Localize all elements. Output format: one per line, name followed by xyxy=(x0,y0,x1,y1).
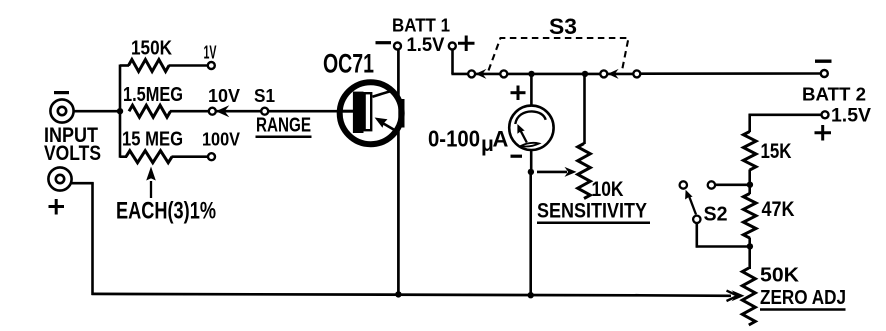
label BATT 1 xyxy=(392,15,450,36)
node bottom rail transistor junction xyxy=(395,291,401,297)
label 1.5MEG value xyxy=(123,84,183,106)
svg-text:OC71: OC71 xyxy=(323,49,374,79)
svg-text:10V: 10V xyxy=(208,85,241,106)
label 50K xyxy=(760,264,799,287)
battery B2 plus sign xyxy=(815,125,832,141)
node bottom rail meter junction xyxy=(528,292,534,298)
label 0-100uA xyxy=(428,126,509,157)
resistor 47K xyxy=(743,194,756,239)
wire junction down to 10K pot xyxy=(583,74,586,144)
meter M1 scale arc xyxy=(515,111,545,124)
wire BATT1- down through transistor to bottom rail xyxy=(397,49,400,296)
label 100V xyxy=(202,129,241,150)
switch S3b wiper arrow xyxy=(607,69,634,79)
switch S1 pole contact xyxy=(261,108,268,115)
wire bus to R 150K xyxy=(120,64,129,67)
node divider input junction xyxy=(117,108,123,114)
wire S2 pole down and to 47K bottom xyxy=(696,223,747,248)
svg-text:ZERO ADJ: ZERO ADJ xyxy=(760,287,846,309)
svg-text:BATT 1: BATT 1 xyxy=(392,15,450,36)
switch S2 pole contact xyxy=(693,216,700,223)
switch S3a wiper arrow xyxy=(475,69,501,79)
transistor Q1 collector lead xyxy=(373,90,394,97)
battery B1 negative terminal xyxy=(394,43,401,50)
resistor 15K xyxy=(743,132,756,171)
svg-text:15K: 15K xyxy=(761,140,792,163)
wire junction down to 50K pot xyxy=(748,246,751,269)
label EACH (3) 1% xyxy=(116,198,216,225)
label 150K value xyxy=(131,37,172,60)
wire meter to wiper junction xyxy=(530,149,533,172)
label minus for input top terminal xyxy=(54,91,69,94)
switch S3b output contact xyxy=(633,70,640,77)
switch S2 lever xyxy=(685,190,696,215)
svg-text:1V: 1V xyxy=(204,42,217,63)
svg-text:1.5V: 1.5V xyxy=(407,34,445,56)
wire 47K to junction xyxy=(748,238,751,248)
meter M1 pivot base xyxy=(521,143,539,147)
label ZERO ADJ underlined xyxy=(760,287,846,310)
svg-text:VOLTS: VOLTS xyxy=(44,142,101,165)
node meter bottom junction xyxy=(528,169,534,175)
label meter minus sign xyxy=(511,155,523,158)
label 15K xyxy=(761,140,792,163)
label 10V xyxy=(208,85,241,106)
label S1 xyxy=(254,85,275,106)
label 15 MEG value xyxy=(122,129,183,151)
switch S1 wiper arrow xyxy=(216,105,230,117)
switch S2 open contact xyxy=(680,181,687,188)
svg-text:50K: 50K xyxy=(760,264,799,287)
label SENSITIVITY underlined xyxy=(537,200,650,223)
battery B1 plus sign xyxy=(458,36,475,52)
wire input- to divider bus xyxy=(74,110,122,113)
svg-text:150K: 150K xyxy=(131,37,172,60)
battery B1 minus sign xyxy=(376,41,392,44)
node sensitivity pot junction xyxy=(582,71,588,77)
label plus for input bottom terminal xyxy=(49,199,65,215)
wire S3a to S3b along top rail xyxy=(507,73,601,76)
svg-text:RANGE: RANGE xyxy=(256,114,311,136)
wire junction down to meter xyxy=(530,74,533,106)
meter M1 0-100uA body xyxy=(509,106,553,150)
wire S3b to BATT2 negative xyxy=(640,72,821,75)
transistor Q1 OC71 body circle xyxy=(340,82,402,144)
svg-text:1.5MEG: 1.5MEG xyxy=(123,84,183,106)
label 1.5V battery2 xyxy=(831,105,871,127)
svg-text:0-100: 0-100 xyxy=(428,126,480,152)
label OC71 xyxy=(323,49,374,79)
potentiometer 50K body xyxy=(742,268,755,325)
transistor Q1 base bar xyxy=(353,92,371,133)
svg-text:S2: S2 xyxy=(704,203,728,226)
label 10K xyxy=(592,178,624,201)
svg-text:100V: 100V xyxy=(202,129,241,150)
wire bottom rail xyxy=(92,294,732,296)
transistor Q1 emitter lead xyxy=(375,118,398,132)
switch S2 throw contact xyxy=(708,181,715,188)
node 15K 47K junction xyxy=(747,182,753,188)
wire junction to 47K xyxy=(748,185,751,194)
label S2 xyxy=(704,203,728,226)
transistor Q1 ring merge with rail xyxy=(398,99,404,128)
svg-text:S3: S3 xyxy=(549,14,577,39)
svg-text:10K: 10K xyxy=(592,178,624,201)
resistor 150K xyxy=(129,60,170,72)
battery B1 positive terminal xyxy=(449,43,456,50)
input jack J1 negative terminal xyxy=(50,99,73,122)
label S3 xyxy=(549,14,577,39)
label BATT 2 xyxy=(802,84,866,105)
wire S1 wiper to transistor base xyxy=(216,110,354,113)
wire 15K to junction xyxy=(748,170,751,186)
svg-text:S1: S1 xyxy=(254,85,275,106)
label 1.5V battery1 xyxy=(407,34,445,56)
svg-text:1.5V: 1.5V xyxy=(831,105,871,127)
switch S3 mechanical linkage dashed xyxy=(489,38,629,71)
battery B2 negative terminal xyxy=(821,70,828,77)
svg-text:BATT 2: BATT 2 xyxy=(802,84,866,105)
note arrow pointing to resistors xyxy=(146,167,156,199)
switch S3a fixed contact xyxy=(468,70,475,77)
potentiometer 50K wiper arrow xyxy=(727,290,745,301)
svg-text:A: A xyxy=(493,127,509,152)
wire input+ down to bottom rail xyxy=(71,182,94,295)
wire S2 upper contact to 15K junction xyxy=(715,184,747,187)
wire R1.5MEG to 10V contact xyxy=(170,110,209,113)
label meter plus sign xyxy=(511,86,526,101)
svg-text:15 MEG: 15 MEG xyxy=(122,129,183,151)
contact 10V of S1 xyxy=(209,108,216,115)
wire divider bus vertical xyxy=(119,65,122,158)
contact 100V of S1 xyxy=(208,153,215,160)
wire R15MEG to 100V contact xyxy=(172,155,209,158)
input jack J2 positive terminal xyxy=(48,167,71,190)
resistor 1.5MEG xyxy=(129,105,171,117)
label 47K xyxy=(762,198,795,221)
wire BATT1+ down to S3 pole xyxy=(451,50,468,75)
label INPUT VOLTS xyxy=(44,124,101,165)
label 1V xyxy=(204,42,217,63)
wire R150K to 1V contact xyxy=(169,64,209,67)
battery B2 minus sign xyxy=(815,60,832,63)
transistor Q1 base lead stub xyxy=(340,110,354,113)
svg-text:SENSITIVITY: SENSITIVITY xyxy=(537,200,647,223)
wire bus to R 15MEG xyxy=(120,155,127,158)
potentiometer 10K wiper arrow xyxy=(537,167,577,177)
contact 1V of S1 xyxy=(208,62,215,69)
switch S3a output contact xyxy=(500,70,507,77)
battery B2 positive terminal xyxy=(822,111,829,118)
svg-text:EACH(3)1%: EACH(3)1% xyxy=(116,198,216,225)
potentiometer 10K body xyxy=(578,144,591,199)
wire BATT2+ to resistor chain xyxy=(749,114,822,132)
resistor 15MEG xyxy=(126,151,172,163)
label RANGE underlined xyxy=(256,114,312,137)
node meter branch junction xyxy=(528,71,534,77)
meter M1 needle xyxy=(517,124,526,143)
wire meter junction to bottom rail xyxy=(529,172,532,296)
node 47K 50K junction xyxy=(747,243,753,249)
svg-text:47K: 47K xyxy=(762,198,795,221)
switch S3b fixed contact xyxy=(600,70,607,77)
